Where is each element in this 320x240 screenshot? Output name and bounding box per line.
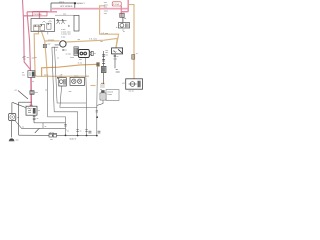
svg-text:xxx: xxx bbox=[100, 41, 103, 43]
svg-text:xx: xx bbox=[22, 126, 24, 128]
connector tan T4 end bbox=[97, 63, 100, 67]
svg-text:Oil Pres: Oil Pres bbox=[34, 13, 43, 16]
svg-text:xx: xx bbox=[17, 117, 19, 119]
svg-text:Cxxxx: Cxxxx bbox=[107, 93, 112, 96]
svg-text:HOT WIRES: HOT WIRES bbox=[60, 5, 73, 8]
svg-text:xxxx: xxxx bbox=[116, 71, 120, 73]
ignition switch box bbox=[31, 19, 55, 35]
fuse F1 bbox=[112, 2, 121, 6]
wire bottom lines bbox=[34, 122, 66, 124]
wire pink A left vertical bbox=[23, 0, 31, 70]
ground bus bbox=[19, 134, 97, 137]
connector ticks bottom verticals bbox=[64, 124, 100, 132]
hour meter gauge bbox=[9, 103, 19, 121]
svg-text:xx: xx bbox=[39, 128, 41, 130]
wire K3 down with connector bbox=[33, 115, 35, 123]
svg-text:xxx: xxx bbox=[23, 58, 26, 60]
wire gray Va bbox=[52, 47, 54, 112]
svg-text:xxx xx: xxx xx bbox=[59, 2, 64, 4]
relay K1 bbox=[116, 23, 130, 32]
wire pink below fuse F2 bbox=[30, 77, 32, 106]
svg-text:xxx: xxx bbox=[63, 14, 66, 16]
wire circle feed bbox=[52, 45, 59, 47]
svg-text:xxx xx: xxx xx bbox=[129, 91, 134, 93]
relay R2 bbox=[59, 76, 67, 86]
relay R3 bbox=[112, 48, 123, 61]
svg-text:x xxx: x xxx bbox=[61, 36, 65, 38]
wire tan T1 from splice bbox=[100, 6, 119, 48]
svg-text:xx: xx bbox=[57, 57, 59, 59]
svg-text:xx: xx bbox=[45, 126, 47, 128]
wire to gauge bbox=[12, 102, 25, 107]
narrow box bbox=[74, 15, 79, 31]
relay K2 bbox=[122, 79, 142, 93]
svg-text:xx xx: xx xx bbox=[44, 74, 48, 76]
wire tan T2 right bbox=[66, 38, 117, 48]
connector on pink B bbox=[30, 91, 34, 95]
svg-text:Splice 2: Splice 2 bbox=[70, 137, 77, 140]
wire hot pink main bbox=[52, 8, 128, 10]
ground connector box bbox=[106, 90, 119, 101]
wire pink B vertical bbox=[27, 12, 31, 71]
svg-text:xxx: xxx bbox=[50, 139, 53, 141]
fusible links on bus bbox=[49, 132, 57, 141]
ground symbol bbox=[9, 138, 14, 140]
wire from key switch down bbox=[85, 58, 86, 136]
connector chain bbox=[101, 50, 108, 84]
start switch contact bbox=[19, 102, 32, 135]
svg-text:xx: xx bbox=[80, 130, 82, 132]
svg-text:xxx: xxx bbox=[16, 139, 19, 141]
wire tan T4 bbox=[42, 64, 98, 76]
wire gray Vb bbox=[55, 47, 87, 103]
svg-text:xxx: xxx bbox=[79, 59, 82, 61]
svg-text:xxx: xxx bbox=[35, 92, 38, 94]
bus junction dots bbox=[65, 135, 67, 137]
wire tan inside switch box bbox=[34, 26, 42, 28]
svg-text:xx: xx bbox=[45, 90, 47, 92]
connector dark bbox=[101, 90, 104, 93]
wire crimson left bbox=[33, 12, 47, 16]
connector box bbox=[100, 93, 106, 100]
wire gray Vc bbox=[60, 86, 97, 107]
svg-text:xx: xx bbox=[123, 31, 125, 33]
connector bars box bbox=[74, 47, 79, 56]
wire pink vertical right bbox=[121, 0, 128, 12]
connector box under T2 start bbox=[43, 44, 46, 47]
start switch lever bbox=[18, 91, 28, 100]
switch arcs bbox=[43, 21, 52, 23]
tick on right vertical bbox=[96, 111, 98, 112]
wire fuse drop bbox=[120, 6, 122, 13]
svg-text:Splice 1: Splice 1 bbox=[77, 2, 86, 5]
connector on tan T3 bbox=[132, 55, 135, 60]
wire oil pressure pink bbox=[27, 12, 57, 19]
wire tan stubs bottom connector bbox=[101, 82, 105, 84]
svg-text:L.O. xxx: L.O. xxx bbox=[101, 32, 108, 35]
svg-text:xxxx: xxxx bbox=[113, 58, 117, 60]
svg-text:xx xxxx: xx xxxx bbox=[48, 39, 54, 41]
wire black to relay K1 bbox=[122, 17, 124, 22]
svg-text:xxx: xxx bbox=[78, 39, 81, 41]
svg-text:xx xx: xx xx bbox=[74, 75, 78, 77]
svg-text:xx: xx bbox=[38, 110, 40, 112]
svg-text:K2: K2 bbox=[122, 82, 124, 85]
headlights box bbox=[70, 77, 85, 85]
hour meter circle bbox=[60, 41, 66, 47]
connector on fuse drop bbox=[120, 13, 124, 17]
wire gauge to ground bbox=[11, 121, 13, 138]
wire from T4 connector down bbox=[96, 67, 99, 136]
svg-text:xx xx: xx xx bbox=[78, 63, 82, 65]
solenoid K3 bbox=[26, 106, 40, 115]
interlock switches bbox=[56, 19, 70, 26]
key switch assembly bbox=[78, 50, 95, 62]
wire relay R3 down bbox=[114, 54, 116, 68]
svg-text:xx: xx bbox=[136, 53, 138, 55]
svg-text:x xxxxx xxx: x xxxxx xxx bbox=[61, 34, 71, 36]
switch sub box 1 bbox=[34, 25, 39, 31]
switch sub box 3 bbox=[47, 23, 51, 29]
wire tan T3 right side bbox=[128, 5, 134, 79]
svg-text:xx: xx bbox=[32, 81, 34, 83]
svg-text:C.S. xxxx: C.S. xxxx bbox=[89, 37, 97, 40]
svg-text:xxx: xxx bbox=[59, 76, 62, 78]
svg-text:xxx: xxx bbox=[32, 58, 35, 60]
svg-text:xxx: xxx bbox=[48, 43, 51, 45]
wire labels left column bbox=[22, 56, 36, 60]
svg-text:Lxxx: Lxxx bbox=[70, 56, 74, 59]
svg-text:xxx: xxx bbox=[22, 75, 25, 77]
junction blob right bbox=[96, 116, 98, 118]
svg-text:x: x bbox=[66, 130, 67, 132]
wire gray Vd bbox=[47, 77, 65, 136]
svg-text:xxx: xxx bbox=[105, 55, 108, 57]
wire link to narrow box bbox=[55, 14, 74, 16]
fuse F2 bbox=[22, 71, 35, 78]
svg-text:F1 5A: F1 5A bbox=[113, 3, 119, 6]
svg-text:xx: xx bbox=[65, 50, 67, 52]
svg-text:xx xxx: xx xxx bbox=[66, 53, 71, 55]
switch sub box 2 bbox=[40, 24, 45, 30]
wire tan stub left of labels bbox=[91, 85, 96, 87]
svg-text:xxx: xxx bbox=[104, 5, 107, 8]
wire chain jog bbox=[97, 100, 103, 107]
svg-text:xxx: xxx bbox=[69, 91, 72, 93]
wire gauge diagonal to splice line bbox=[15, 121, 66, 129]
wire tan C from switch box bbox=[34, 32, 89, 77]
wire tan T2 left bbox=[45, 40, 60, 42]
svg-text:xx: xx bbox=[37, 118, 39, 120]
svg-text:xx: xx bbox=[94, 53, 96, 55]
wire splice line top bbox=[51, 3, 75, 12]
svg-text:xx xx: xx xx bbox=[50, 132, 54, 134]
svg-text:xx: xx bbox=[67, 130, 69, 132]
connector on tan left of R2 bbox=[57, 77, 58, 79]
splice dot bbox=[74, 2, 76, 4]
switch lever on bus bbox=[35, 129, 39, 133]
svg-text:xxx: xxx bbox=[104, 12, 107, 15]
